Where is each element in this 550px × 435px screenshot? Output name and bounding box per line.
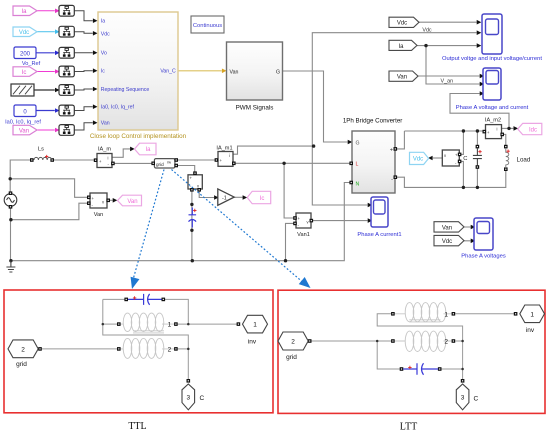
svg-text:Close loop Control implementat: Close loop Control implementation — [90, 133, 187, 140]
svg-text:1: 1 — [444, 311, 448, 318]
svg-text:Phase A voltages: Phase A voltages — [461, 254, 506, 260]
svg-text:Van: Van — [442, 225, 452, 231]
svg-text:Ic: Ic — [260, 196, 265, 202]
svg-text:grid: grid — [286, 354, 297, 361]
svg-text:grid: grid — [16, 361, 27, 368]
svg-text:PWM Signals: PWM Signals — [236, 104, 274, 111]
svg-text:C: C — [463, 156, 467, 162]
svg-text:Phase A voltage and current: Phase A voltage and current — [456, 105, 529, 111]
svg-text:C: C — [474, 396, 479, 403]
svg-text:Phase A current1: Phase A current1 — [357, 232, 401, 238]
svg-text:i: i — [229, 153, 230, 158]
svg-text:1: 1 — [168, 322, 172, 329]
svg-text:Van1: Van1 — [297, 232, 310, 238]
svg-text:Van_C: Van_C — [160, 69, 176, 75]
svg-text:Ic: Ic — [101, 69, 105, 75]
svg-text:LTT: LTT — [400, 422, 417, 433]
svg-text:1Ph Bridge Converter: 1Ph Bridge Converter — [343, 117, 403, 124]
svg-text:Continuous: Continuous — [193, 23, 222, 29]
svg-text:2: 2 — [21, 346, 25, 353]
svg-text:Load: Load — [517, 156, 531, 163]
svg-text:Ia: Ia — [145, 147, 151, 153]
svg-text:Van: Van — [19, 129, 29, 135]
svg-text:+: + — [390, 147, 393, 153]
svg-text:Vdc: Vdc — [442, 239, 452, 245]
svg-text:inv: inv — [248, 339, 257, 346]
svg-text:Ia: Ia — [398, 44, 404, 50]
svg-text:Vdc: Vdc — [422, 28, 432, 34]
svg-text:Vdc: Vdc — [397, 21, 407, 27]
svg-text:G: G — [356, 140, 360, 146]
svg-text:i: i — [108, 155, 109, 160]
svg-text:Van: Van — [94, 212, 104, 218]
svg-text:Ia: Ia — [21, 9, 27, 15]
svg-text:200: 200 — [20, 52, 31, 58]
svg-text:2: 2 — [291, 339, 295, 346]
svg-text:1: 1 — [530, 311, 534, 318]
svg-text:Vo: Vo — [101, 51, 107, 57]
svg-text:Output voltge and input voltag: Output voltge and input voltage/current — [442, 56, 542, 62]
svg-text:V_an: V_an — [441, 78, 454, 84]
svg-text:Repeating Sequence: Repeating Sequence — [101, 87, 150, 93]
svg-text:IA_m2: IA_m2 — [485, 118, 501, 124]
svg-text:IA_m: IA_m — [98, 147, 111, 153]
svg-text:G: G — [276, 70, 280, 76]
svg-text:i: i — [497, 127, 498, 132]
svg-text:inv: inv — [167, 160, 171, 164]
svg-text:Van: Van — [230, 69, 239, 75]
svg-text:Van: Van — [127, 199, 137, 205]
svg-text:inv: inv — [526, 327, 535, 334]
svg-text:Vdc: Vdc — [413, 157, 423, 163]
svg-text:3: 3 — [186, 395, 190, 402]
svg-text:N: N — [356, 181, 360, 187]
svg-text:grid: grid — [156, 162, 164, 167]
svg-text:Ia: Ia — [101, 19, 105, 25]
svg-text:Vdc: Vdc — [101, 31, 110, 37]
svg-text:Ia0, Ic0, Iq_ref: Ia0, Ic0, Iq_ref — [5, 120, 41, 126]
svg-text:L: L — [356, 161, 359, 167]
svg-text:Idc: Idc — [529, 127, 537, 133]
svg-text:1: 1 — [253, 322, 257, 329]
svg-text:Ls: Ls — [38, 147, 44, 153]
svg-text:2: 2 — [168, 346, 172, 353]
svg-text:2: 2 — [444, 339, 448, 346]
svg-text:3: 3 — [461, 395, 465, 402]
svg-text:TTL: TTL — [128, 421, 146, 432]
svg-text:IA_m1: IA_m1 — [216, 146, 232, 152]
svg-text:Ia0, Ic0, Iq_ref: Ia0, Ic0, Iq_ref — [101, 105, 135, 111]
svg-text:Van: Van — [101, 121, 110, 127]
svg-text:Van: Van — [397, 75, 407, 81]
svg-text:-: - — [391, 176, 393, 182]
svg-text:C: C — [200, 395, 205, 402]
svg-text:Vo_Ref: Vo_Ref — [22, 61, 41, 67]
svg-text:-1: -1 — [222, 196, 227, 202]
svg-text:Vdc: Vdc — [19, 30, 29, 36]
svg-text:Ic: Ic — [22, 70, 27, 76]
